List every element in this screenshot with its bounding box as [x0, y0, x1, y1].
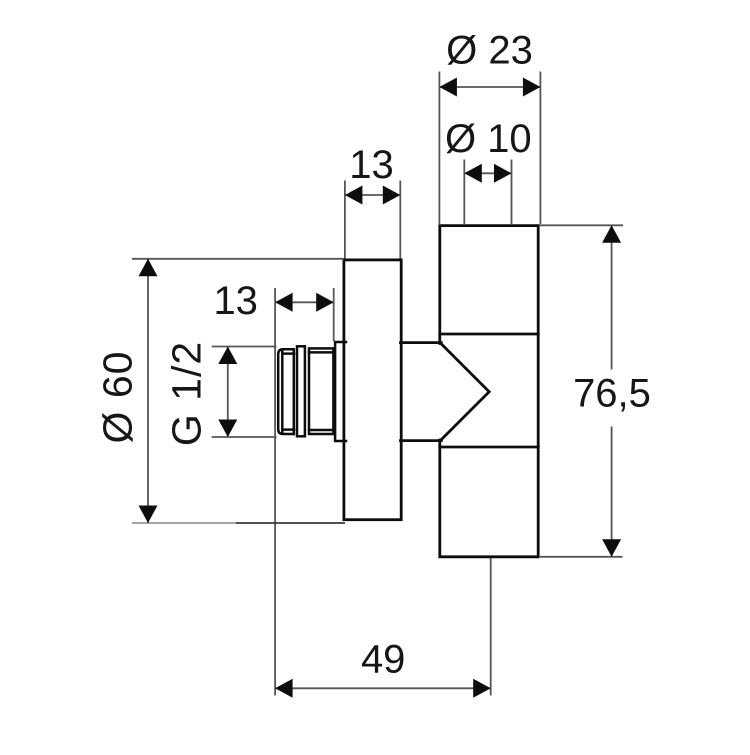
svg-text:76,5: 76,5	[573, 372, 651, 416]
thread segment 3 (smooth)	[309, 348, 333, 434]
body internal line upper	[440, 333, 538, 336]
dim 13 thread extension line right	[333, 288, 335, 342]
neck between plate and body	[401, 343, 442, 441]
dim 13 top left arrow	[345, 186, 363, 205]
dim Ø10 right arrow	[494, 164, 512, 183]
body internal line lower	[440, 446, 538, 449]
dim 13 thread left arrow	[275, 293, 293, 312]
dim Ø23 right arrow	[523, 78, 541, 97]
dim 13 thread extension line left (shared with 49)	[274, 288, 276, 696]
V-notch in body	[441, 344, 489, 441]
valve body outline	[440, 226, 538, 557]
thread segment 1 (rounded cap)	[278, 349, 294, 434]
thread segment 1 inner vertical	[281, 350, 284, 434]
dim 76,5 extension line top	[540, 224, 624, 226]
dim Ø60 extension line top	[132, 258, 344, 260]
dim 76,5 extension line bottom	[540, 556, 623, 558]
dim 49 right arrow	[473, 679, 491, 698]
dim Ø10 left arrow	[464, 164, 482, 183]
dim 76,5 dimension line lower segment	[611, 427, 613, 557]
dim 76,5 dimension line upper segment	[611, 225, 613, 369]
dim 13 thread dimension line	[275, 301, 334, 303]
dim Ø60 top arrow	[139, 259, 158, 277]
thread ring segment 2	[297, 346, 305, 436]
dim 49 dimension line	[275, 687, 491, 689]
dim 13 top extension lines	[345, 181, 400, 259]
thread segment 1 inner horizontals	[283, 354, 294, 430]
thread segment 1 right edge	[293, 349, 296, 434]
dim 13 top right arrow	[383, 186, 401, 205]
dim Ø60 extension line bottom light part	[132, 522, 236, 524]
dim Ø60 dimension line	[147, 259, 149, 523]
svg-text:49: 49	[361, 638, 406, 682]
dim Ø23 dimension line	[439, 86, 540, 88]
dim G1/2 top arrow	[218, 347, 237, 365]
svg-text:13: 13	[349, 143, 394, 187]
dim 49 left arrow	[275, 679, 293, 698]
dim G1/2 dimension line	[227, 347, 229, 438]
dim 13 top dimension line	[345, 194, 400, 196]
svg-text:Ø 23: Ø 23	[446, 29, 533, 73]
dim Ø23 left arrow	[439, 78, 457, 97]
thread segment 3 chamfer lines	[309, 352, 333, 430]
svg-text:13: 13	[213, 279, 258, 323]
svg-text:G 1/2: G 1/2	[164, 341, 210, 446]
dim Ø60 extension line bottom dark part	[236, 522, 345, 524]
dim Ø10 dimension line	[464, 172, 511, 174]
dim 76,5 bottom arrow	[602, 539, 621, 557]
dim G1/2 bottom arrow	[218, 420, 237, 438]
svg-text:Ø 10: Ø 10	[445, 117, 532, 161]
dim 76,5 top arrow	[602, 225, 621, 243]
svg-text:Ø 60: Ø 60	[95, 351, 141, 444]
wall plate (flange)	[344, 260, 401, 520]
dim 49 extension line right	[490, 558, 492, 696]
dim Ø60 bottom arrow	[139, 506, 158, 524]
collar behind thread	[335, 342, 346, 441]
dim G1/2 extension lines	[212, 347, 277, 438]
dim Ø23 extension lines	[439, 72, 540, 225]
dim 13 thread right arrow	[316, 293, 334, 312]
dim Ø10 extension lines	[464, 160, 511, 225]
